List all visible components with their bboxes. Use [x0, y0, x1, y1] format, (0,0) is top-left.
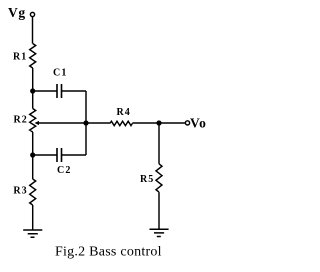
svg-text:Vo: Vo: [190, 115, 206, 130]
ground: [150, 229, 169, 236]
resistor R3: [30, 179, 36, 205]
wire: [32, 205, 34, 230]
node (R4/R5/Vo junction): [156, 120, 161, 125]
wire: [32, 68, 34, 109]
node (wiper/C1/C2 junction): [83, 120, 88, 125]
wire: [86, 122, 110, 124]
wire: [32, 132, 34, 179]
wire: [158, 123, 160, 164]
resistor R4: [110, 121, 132, 125]
svg-text:C2: C2: [57, 165, 72, 176]
terminal Vg: [30, 12, 34, 16]
wire (wiper to node): [38, 122, 86, 124]
wire: [158, 192, 160, 229]
potentiometer R2: [30, 109, 36, 133]
ground: [23, 230, 42, 237]
resistor R1: [30, 44, 36, 68]
wire: [85, 91, 87, 155]
svg-text:R1: R1: [13, 51, 27, 62]
wire: [33, 90, 57, 92]
wiper arrow of R2: [35, 121, 40, 125]
svg-text:Vg: Vg: [8, 5, 26, 20]
svg-text:C1: C1: [53, 67, 68, 78]
svg-text:R3: R3: [13, 186, 27, 197]
capacitor C2: [57, 148, 62, 162]
wire: [32, 17, 34, 44]
wire: [62, 90, 87, 92]
capacitor C1: [57, 84, 62, 98]
svg-text:R5: R5: [140, 174, 154, 185]
resistor R5: [156, 164, 162, 192]
terminal Vo: [185, 121, 189, 125]
wire: [33, 154, 57, 156]
node (R1/R2/C1 junction): [30, 88, 35, 93]
svg-text:Fig.2 Bass control: Fig.2 Bass control: [55, 244, 162, 259]
svg-text:R4: R4: [117, 107, 131, 118]
wire: [62, 154, 87, 156]
wire: [132, 122, 159, 124]
node (R2/R3/C2 junction): [30, 152, 35, 157]
svg-text:R2: R2: [14, 115, 28, 126]
wire: [159, 122, 185, 124]
